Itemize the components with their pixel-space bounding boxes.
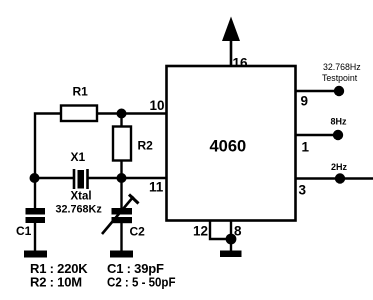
wire R2 top	[120, 114, 122, 127]
wire pin 8	[230, 221, 232, 252]
svg-text:4060: 4060	[210, 138, 247, 156]
svg-text:C2: C2	[130, 225, 146, 239]
junction dot X1/C1 left	[30, 173, 40, 183]
svg-text:11: 11	[149, 180, 164, 195]
wire R1 left rail	[35, 114, 61, 209]
svg-text:C2 : 5 - 50pF: C2 : 5 - 50pF	[107, 275, 176, 290]
op IC U1 4060	[167, 66, 296, 221]
node 2Hz	[335, 173, 345, 183]
svg-text:R2 : 10M: R2 : 10M	[30, 275, 82, 290]
junction dot X1/R2/C2	[117, 173, 127, 183]
svg-text:Testpoint: Testpoint	[322, 73, 358, 83]
wire X1 left	[35, 177, 73, 179]
svg-text:C1: C1	[16, 224, 32, 238]
capacitor C1	[26, 208, 46, 223]
ground pin 8	[220, 251, 242, 258]
resistor R1	[61, 106, 97, 122]
svg-text:X1: X1	[71, 150, 86, 164]
wire pin 1	[296, 134, 338, 136]
svg-text:R1: R1	[73, 85, 89, 99]
svg-text:R2: R2	[138, 139, 154, 153]
svg-text:10: 10	[150, 98, 165, 113]
svg-text:1: 1	[302, 140, 310, 155]
net label 32.768Hz Testpoint	[322, 62, 361, 83]
svg-text:32.768Hz: 32.768Hz	[323, 62, 361, 72]
wire C2 to ground	[120, 223, 122, 252]
svg-text:Xtal: Xtal	[71, 191, 92, 203]
junction dot pin8/12	[226, 234, 237, 245]
capacitor C2 variable	[102, 195, 139, 235]
ground C2	[110, 251, 133, 258]
wire pin 9	[296, 90, 339, 92]
wire pin 12	[210, 221, 231, 239]
wire X1 right to pin 11	[88, 177, 166, 179]
wire pin 10	[97, 112, 166, 114]
wire pin 3	[296, 177, 373, 179]
resistor R2	[113, 127, 131, 161]
wire to C2	[120, 178, 122, 209]
power arrow (supply to pin 16)	[222, 17, 240, 67]
wire R2 bottom	[120, 161, 122, 179]
junction dot pin10/R1/R2	[117, 109, 127, 119]
svg-text:32.768Kz: 32.768Kz	[56, 204, 103, 216]
svg-text:8Hz: 8Hz	[331, 117, 348, 127]
wire C1 to ground	[34, 223, 36, 252]
svg-text:2Hz: 2Hz	[331, 162, 348, 172]
svg-text:9: 9	[301, 94, 309, 109]
X1 value label Xtal 32.768Kz	[56, 191, 103, 216]
crystal X1	[74, 169, 88, 189]
node 8Hz	[333, 130, 343, 140]
node 32.768Hz testpoint	[334, 86, 344, 96]
svg-text:3: 3	[299, 183, 307, 198]
svg-text:12: 12	[193, 224, 208, 239]
ground C1	[24, 251, 47, 258]
